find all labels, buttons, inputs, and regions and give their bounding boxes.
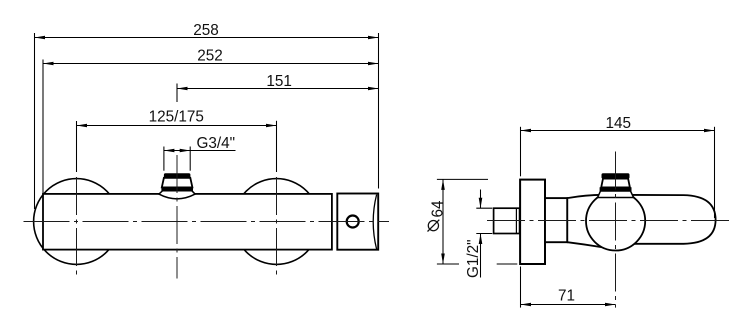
- extension line from 125/175 to right rosette: [276, 121, 278, 172]
- top outlet fitting middle (front view): [162, 178, 193, 188]
- knob circle (side view): [586, 191, 645, 250]
- dimension 151 extension stub: [176, 84, 178, 103]
- handle button: [347, 216, 359, 228]
- dimension line 125/175: [77, 125, 277, 127]
- wall flange (side view): [520, 180, 545, 264]
- dimension line 258: [34, 37, 378, 39]
- dimension line G1/2 upper: [480, 190, 482, 209]
- svg-text:151: 151: [266, 73, 292, 90]
- centerline horizontal (front view): [24, 221, 390, 223]
- top outlet fitting skirt (front view): [159, 191, 195, 199]
- dimension G3/4 extension lines: [163, 147, 165, 171]
- handle end cap arc: [373, 195, 376, 250]
- svg-text:258: 258: [193, 22, 219, 39]
- body tube (side view): [567, 195, 715, 248]
- dimension 252 extension line left: [42, 60, 44, 194]
- centerline outlet fitting vertical: [176, 155, 178, 279]
- outlet fitting skirt (side view): [598, 191, 634, 198]
- dimension line d64: [442, 179, 444, 264]
- dimension line G1/2 lower: [480, 234, 482, 278]
- dimension 145 extension line left: [520, 127, 522, 177]
- dimension line 145: [521, 130, 715, 132]
- top outlet fitting lower band (front view): [161, 187, 193, 191]
- top outlet fitting upper band (front view): [164, 173, 191, 178]
- dimension line 71: [521, 304, 616, 306]
- label d64 symbol slash: [428, 220, 440, 232]
- neck (side view): [545, 198, 567, 242]
- dimension 71 extension line left: [520, 267, 522, 308]
- mixer body: [43, 194, 332, 250]
- right rosette circle: [234, 179, 320, 265]
- svg-text:252: 252: [197, 47, 223, 64]
- outlet fitting middle (side view): [601, 179, 630, 188]
- handle: [337, 194, 378, 250]
- centerline left rosette vertical: [76, 177, 78, 279]
- svg-text:64: 64: [429, 200, 446, 218]
- centerline right rosette vertical: [276, 177, 278, 279]
- left rosette circle: [34, 179, 120, 265]
- dimension d64 extension bottom: [437, 263, 459, 265]
- dimension line 151: [177, 88, 378, 90]
- dimension 145 extension line right: [714, 127, 716, 218]
- svg-text:G1/2": G1/2": [465, 239, 482, 278]
- centerline horizontal (side view): [487, 220, 730, 222]
- dimension 258 extension line left: [34, 33, 36, 209]
- svg-text:145: 145: [606, 115, 632, 132]
- dimension line G3/4: [164, 150, 236, 152]
- inlet nipple G1/2 (side view): [494, 208, 520, 233]
- extension line from 125/175 to left rosette: [76, 121, 78, 172]
- centerline knob vertical (side view): [615, 152, 617, 308]
- svg-text:71: 71: [558, 288, 575, 305]
- svg-text:125/175: 125/175: [149, 109, 204, 126]
- label d64 symbol circle: [428, 221, 438, 231]
- nipple joint line: [515, 208, 517, 233]
- dimension d64 extension top: [437, 178, 488, 180]
- right extension line (258/252/151): [378, 33, 380, 189]
- dimension line 252: [43, 63, 378, 65]
- outlet fitting lower band (side view): [600, 187, 632, 191]
- outlet fitting upper band (side view): [602, 173, 630, 178]
- dimension G1/2 extension lines: [476, 207, 492, 209]
- svg-text:G3/4": G3/4": [197, 135, 236, 152]
